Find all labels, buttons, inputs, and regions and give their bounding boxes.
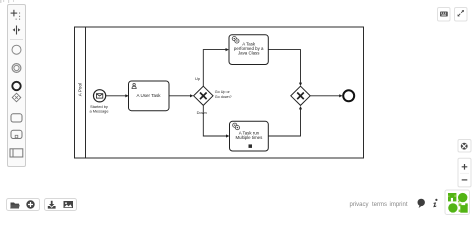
label Go Up or Go down? bbox=[215, 90, 232, 99]
end event bbox=[343, 90, 354, 101]
svg-text:a Message: a Message bbox=[89, 108, 108, 113]
svg-text:A Pool: A Pool bbox=[78, 83, 83, 96]
task A Task run Multiple times bbox=[230, 121, 269, 151]
sequence flow gateway up to java task bbox=[203, 48, 229, 86]
open file toolbar bbox=[7, 199, 40, 211]
bpmn.io logo card bbox=[445, 190, 470, 215]
zoom in/out control bbox=[458, 158, 471, 187]
palette subprocess icon bbox=[11, 130, 22, 138]
download toolbar bbox=[45, 199, 77, 211]
pool label A Pool bbox=[78, 83, 83, 96]
user task icon bbox=[132, 83, 136, 88]
fullscreen button bbox=[455, 8, 468, 22]
gateway join bbox=[291, 86, 310, 105]
palette lasso tool icon bbox=[11, 10, 21, 20]
palette end event icon bbox=[12, 82, 20, 90]
palette start event icon bbox=[12, 45, 21, 54]
faint top-left artifact text bbox=[0, 0, 14, 3]
start event message icon bbox=[96, 94, 102, 98]
logo bottom-right pixel block bbox=[459, 203, 468, 212]
loop marker bbox=[249, 144, 253, 148]
logo top-left pixel block bbox=[448, 193, 456, 201]
info i icon bbox=[433, 199, 437, 208]
folder icon bbox=[10, 203, 20, 209]
pool A Pool bbox=[75, 27, 364, 158]
download image icon bbox=[64, 201, 74, 208]
sequence flow java task to join gateway bbox=[268, 50, 302, 86]
svg-text:privacy: privacy bbox=[350, 202, 369, 208]
new diagram plus icon bbox=[26, 200, 34, 208]
download bpmn icon bbox=[48, 201, 56, 209]
feedback bubble icon bbox=[418, 199, 425, 208]
service task icon java bbox=[232, 37, 239, 44]
svg-text:Java Class: Java Class bbox=[238, 51, 260, 56]
palette task icon bbox=[11, 114, 22, 122]
sequence flow start to user task bbox=[106, 94, 129, 97]
reset zoom button bbox=[458, 140, 471, 153]
start event circle bbox=[94, 90, 106, 102]
palette intermediate event icon bbox=[12, 64, 21, 73]
service task icon multi bbox=[233, 123, 240, 130]
palette participant/pool icon bbox=[10, 149, 23, 157]
svg-text:Down: Down bbox=[197, 110, 207, 115]
gateway split bbox=[194, 86, 213, 105]
svg-text:Go Up or: Go Up or bbox=[215, 90, 231, 94]
palette space tool icon bbox=[13, 26, 21, 35]
palette separator bbox=[10, 39, 23, 41]
svg-text:Up: Up bbox=[195, 76, 201, 81]
logo top-right circle bbox=[458, 193, 468, 203]
java task label bbox=[234, 41, 264, 55]
palette container bbox=[8, 5, 26, 167]
sequence flow gateway down to multi task bbox=[203, 106, 229, 138]
svg-text:terms: terms bbox=[372, 202, 387, 208]
task A User Task bbox=[129, 81, 170, 111]
keyboard button bbox=[438, 8, 451, 22]
palette exclusive gateway icon bbox=[12, 93, 21, 102]
multi task label bbox=[235, 130, 263, 140]
svg-text:imprint: imprint bbox=[390, 202, 408, 208]
sequence flow join gateway to end bbox=[311, 94, 343, 97]
footer links privacy terms imprint bbox=[350, 202, 408, 208]
svg-text:Go down?: Go down? bbox=[215, 95, 232, 99]
sequence flow user task to gateway bbox=[169, 94, 193, 97]
logo bottom-left circle bbox=[448, 203, 457, 212]
sequence flow multi task to join gateway bbox=[268, 106, 302, 136]
task A Task performed by a Java Class bbox=[229, 35, 268, 65]
svg-text:A User Task: A User Task bbox=[137, 93, 162, 98]
svg-text:Multiple times: Multiple times bbox=[235, 135, 263, 140]
start event label bbox=[89, 104, 108, 113]
